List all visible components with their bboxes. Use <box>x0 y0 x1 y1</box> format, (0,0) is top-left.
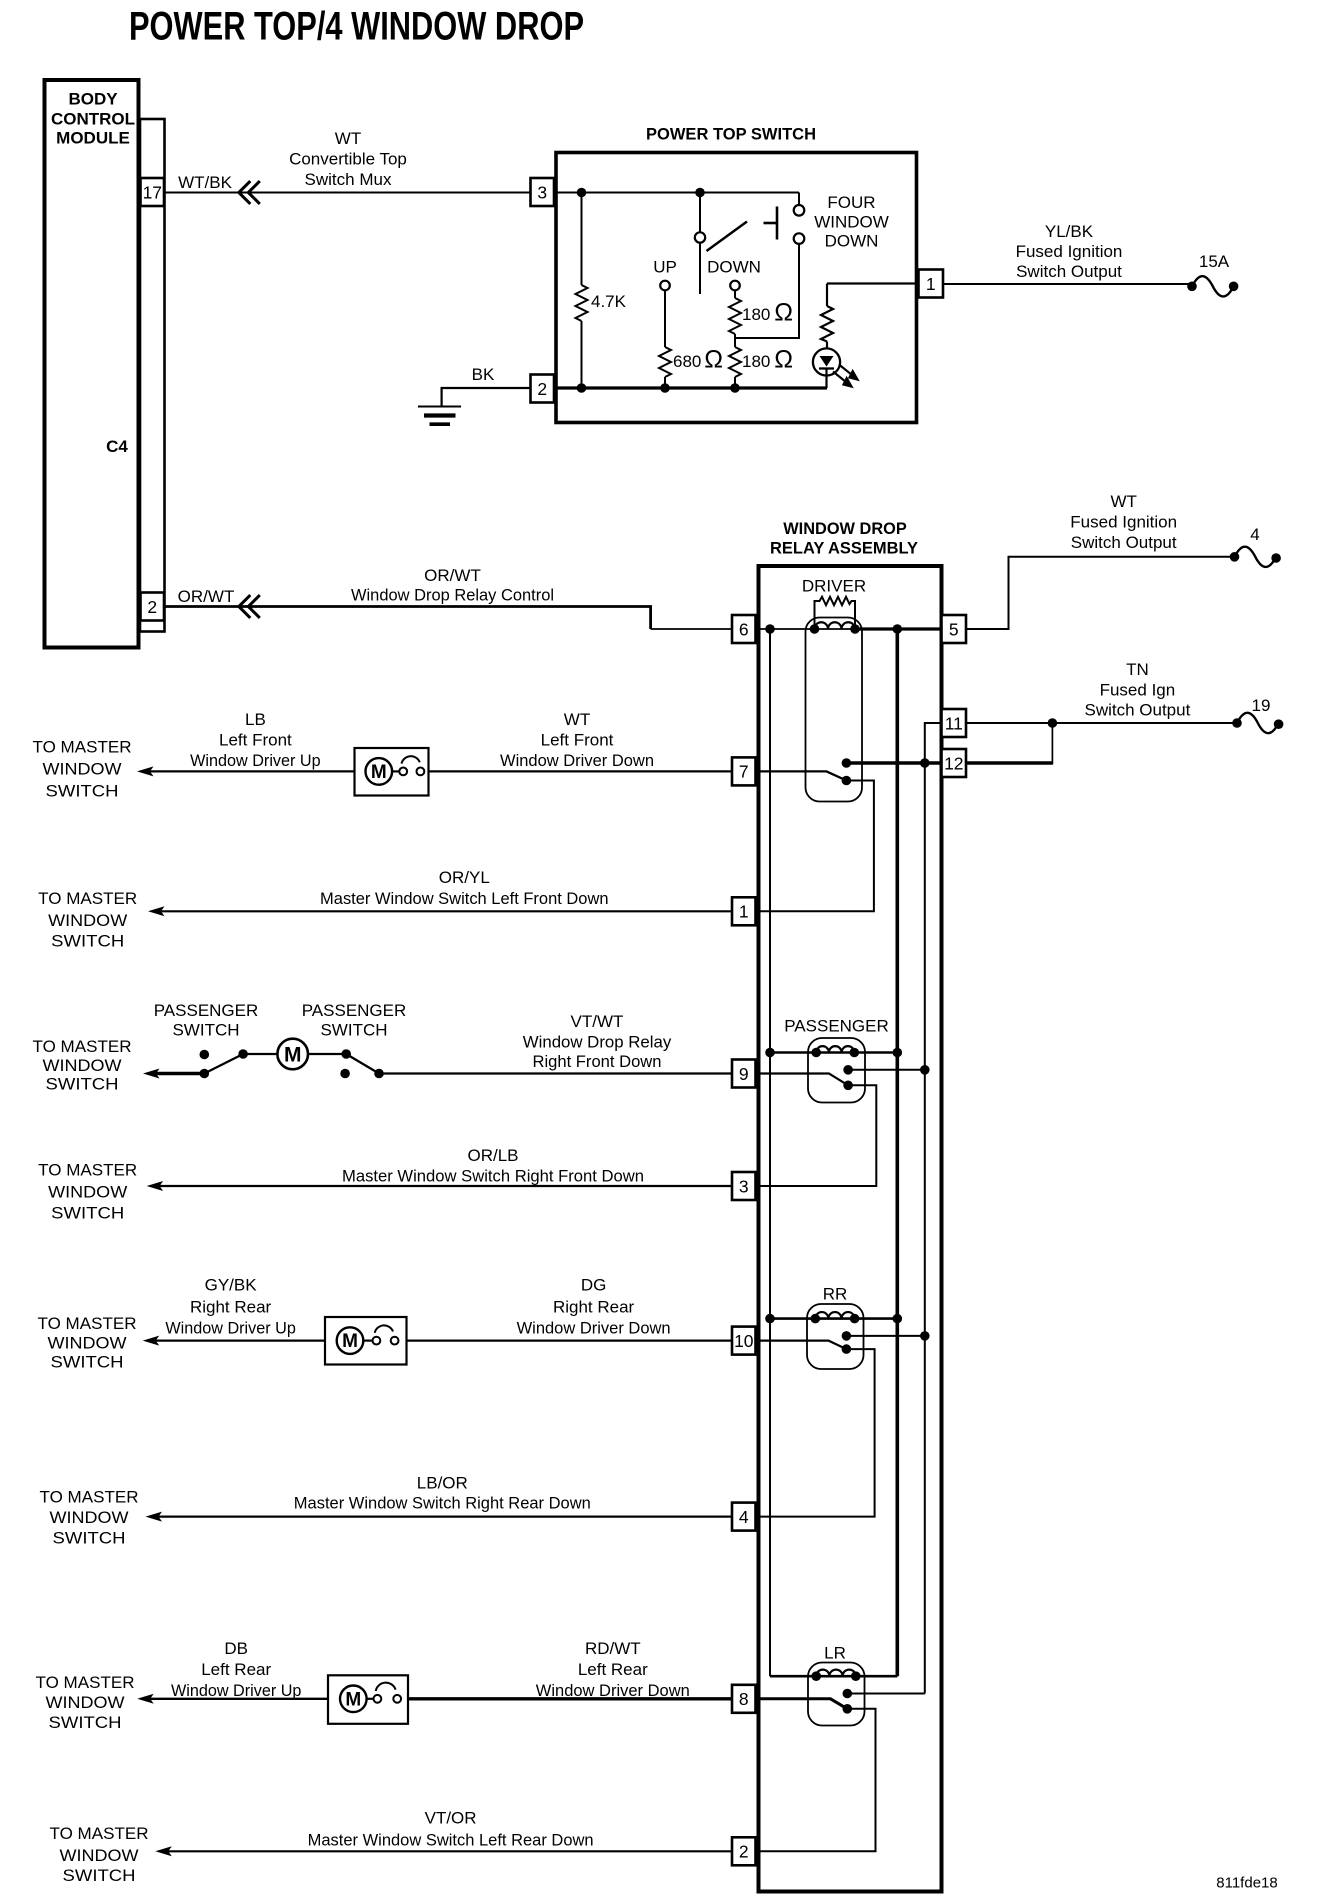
wire label OR/YL Master Window Switch Left Front Down <box>320 868 609 908</box>
relay pin 5 <box>942 615 967 643</box>
svg-text:WINDOW: WINDOW <box>46 1693 125 1712</box>
svg-text:DRIVER: DRIVER <box>802 577 866 596</box>
wire: switch pin 3 top rail <box>554 192 799 194</box>
svg-text:FOUR: FOUR <box>827 193 875 212</box>
arrow to master window switch (row 10) <box>143 1336 160 1346</box>
svg-text:Ω: Ω <box>774 346 793 374</box>
svg-text:UP: UP <box>653 258 677 277</box>
svg-text:Right Front Down: Right Front Down <box>533 1052 662 1071</box>
svg-text:POWER TOP/4 WINDOW DROP: POWER TOP/4 WINDOW DROP <box>129 5 584 49</box>
svg-text:4: 4 <box>1250 525 1259 544</box>
svg-text:SWITCH: SWITCH <box>51 1353 124 1372</box>
svg-text:RELAY ASSEMBLY: RELAY ASSEMBLY <box>770 539 919 558</box>
node: RR NO contact <box>842 1331 852 1341</box>
relay pin 7 <box>732 757 756 785</box>
svg-text:M: M <box>342 1331 358 1352</box>
label FOUR WINDOW DOWN <box>814 193 889 251</box>
relay DRIVER body (stadium) <box>806 618 863 802</box>
fuse 4 <box>1230 525 1281 567</box>
svg-text:WINDOW: WINDOW <box>48 1183 127 1202</box>
node: passenger coil row / thick bus <box>893 1048 903 1058</box>
resistor 180 ohm (upper) <box>729 290 741 347</box>
wire label DB Left Rear Window Driver Up <box>171 1639 302 1700</box>
wire: internal bus from driver coil to LR coil (thick) <box>895 629 899 1676</box>
wire BK: ground to switch pin 2 <box>442 388 531 407</box>
wire label WT Left Front Window Driver Down <box>500 710 654 770</box>
svg-text:Master Window Switch Left Fron: Master Window Switch Left Front Down <box>320 889 609 908</box>
svg-text:SWITCH: SWITCH <box>53 1529 126 1548</box>
wire: passenger lower contact to pin 3 <box>756 1085 877 1186</box>
svg-text:LB/OR: LB/OR <box>417 1474 468 1493</box>
svg-text:Left Rear: Left Rear <box>201 1660 271 1679</box>
arrow to master window switch (row 3) <box>147 1181 164 1191</box>
wire: LED branch to pin 1 <box>827 282 919 284</box>
svg-text:Master Window Switch Right Fro: Master Window Switch Right Front Down <box>342 1167 644 1186</box>
svg-text:2: 2 <box>537 379 547 399</box>
svg-text:WINDOW: WINDOW <box>50 1508 129 1527</box>
wire: pin 7 to driver blade <box>756 771 847 780</box>
svg-text:5: 5 <box>949 619 959 639</box>
svg-text:Right Rear: Right Rear <box>553 1298 635 1317</box>
node: blade to motor wire <box>238 1049 248 1059</box>
node: passenger coil row / left bus <box>765 1048 775 1058</box>
connector C4 strip <box>140 119 165 632</box>
wire: arrow to motor RR <box>155 1339 325 1341</box>
node: pin 12 wire / pin 11 bus <box>920 758 930 768</box>
svg-text:DOWN: DOWN <box>825 232 879 251</box>
motor M left front window <box>355 748 429 796</box>
node: passenger NO contact <box>843 1065 853 1075</box>
pushbutton FOUR WINDOW DOWN <box>794 205 805 216</box>
wire: pin 12 to TN junction (thick) <box>966 761 1052 764</box>
svg-text:RR: RR <box>823 1285 848 1304</box>
arrow to master window switch (row 2) <box>155 1846 172 1856</box>
arrow to master window switch (row 8) <box>137 1694 154 1704</box>
node: bottom rail / 180 <box>730 383 740 393</box>
node label TO MASTER WINDOW SWITCH (row 1) <box>38 889 137 951</box>
svg-text:1: 1 <box>739 902 749 922</box>
node label TO MASTER WINDOW SWITCH (row 4) <box>40 1487 139 1547</box>
node label TO MASTER WINDOW SWITCH (row 3) <box>38 1161 137 1223</box>
wire: passenger coil row <box>770 1051 897 1054</box>
svg-text:Fused Ignition: Fused Ignition <box>1070 513 1177 532</box>
svg-text:VT/OR: VT/OR <box>425 1808 477 1827</box>
relay LR coil <box>816 1670 856 1677</box>
wire OR/YL: relay pin 1 to master switch <box>160 910 732 912</box>
relay pin 4 <box>732 1503 756 1531</box>
svg-text:GY/BK: GY/BK <box>205 1276 258 1295</box>
node: RR coil row / left bus <box>765 1314 775 1324</box>
wire: RR NO contact to pin 11 bus <box>846 1335 924 1337</box>
svg-text:19: 19 <box>1252 696 1271 715</box>
wire: internal bus from pin 11 down to LR contact (thin) <box>925 723 942 1694</box>
wire: LR lower contact to pin 2 <box>756 1709 876 1852</box>
fuse 15A <box>1187 252 1238 296</box>
svg-text:11: 11 <box>945 713 963 733</box>
svg-text:SWITCH: SWITCH <box>172 1021 239 1040</box>
switch label PASSENGER SWITCH (right) <box>302 1001 407 1040</box>
svg-text:YL/BK: YL/BK <box>1045 222 1094 241</box>
in-line connector chevrons on WT/BK wire <box>239 181 260 204</box>
svg-text:OR/YL: OR/YL <box>439 868 490 887</box>
node: bottom rail / 4.7K <box>577 383 587 393</box>
svg-text:WINDOW: WINDOW <box>814 213 889 232</box>
svg-text:MODULE: MODULE <box>56 129 130 148</box>
in-line connector chevrons on OR/WT wire <box>239 595 260 618</box>
svg-text:Window Driver Down: Window Driver Down <box>517 1319 671 1338</box>
svg-text:8: 8 <box>739 1689 749 1709</box>
wire: LR NO contact to pin 11 bus <box>847 1693 925 1695</box>
node label TO MASTER WINDOW SWITCH (row 7) <box>33 738 132 801</box>
svg-text:6: 6 <box>739 619 749 639</box>
node label TO MASTER WINDOW SWITCH (row 2) <box>50 1824 149 1885</box>
svg-text:WINDOW: WINDOW <box>43 760 122 779</box>
svg-text:Switch Mux: Switch Mux <box>305 170 392 189</box>
svg-text:DB: DB <box>224 1639 248 1658</box>
svg-text:Master Window Switch Right Rea: Master Window Switch Right Rear Down <box>294 1494 591 1513</box>
passenger switch right: open contact <box>340 1069 350 1079</box>
passenger switch left: common node <box>200 1069 210 1079</box>
wire label LB/OR Master Window Switch Right Rear Down <box>294 1474 591 1513</box>
ground symbol <box>418 407 461 425</box>
relay pin 12 <box>942 749 967 777</box>
svg-text:Switch Output: Switch Output <box>1016 262 1122 281</box>
switch pole (mux wiper) <box>699 193 701 233</box>
node: LR coil right terminal <box>851 1671 861 1681</box>
svg-text:Convertible Top: Convertible Top <box>289 150 407 169</box>
svg-text:4: 4 <box>739 1507 749 1527</box>
node: coil row / thick bus <box>893 624 903 634</box>
node: pin 11 wire / pin 12 riser <box>1048 718 1058 728</box>
pin 1 (switch) <box>919 270 944 298</box>
wire TN: pin 11 to fuse 19 <box>966 722 1237 724</box>
svg-text:SWITCH: SWITCH <box>46 1075 119 1094</box>
node: passenger coil right terminal <box>850 1048 860 1058</box>
svg-text:WT: WT <box>335 129 361 148</box>
wire VT/OR: relay pin 2 to master switch <box>167 1850 732 1852</box>
LED indicator <box>813 348 840 375</box>
svg-text:LB: LB <box>245 710 266 729</box>
node label TO MASTER WINDOW SWITCH (row 8) <box>36 1673 135 1732</box>
wire: internal bus from pin 6 junction down to LR coil (thin) <box>769 629 771 1676</box>
svg-text:TO MASTER: TO MASTER <box>50 1824 149 1843</box>
svg-text:WINDOW: WINDOW <box>48 911 127 930</box>
svg-text:Switch Output: Switch Output <box>1084 701 1190 720</box>
svg-text:LR: LR <box>824 1644 846 1663</box>
wire: RR lower contact to pin 4 <box>756 1349 875 1517</box>
svg-text:TO MASTER: TO MASTER <box>33 1037 132 1056</box>
switch blade (wiper arm) <box>707 222 748 252</box>
wire label RD/WT Left Rear Window Driver Down <box>536 1639 690 1700</box>
wire: passenger NO contact to pin 11 bus <box>848 1069 925 1071</box>
wire: pin 8 to LR blade (thick) <box>756 1699 848 1709</box>
node: RR coil left terminal <box>811 1314 821 1324</box>
window drop relay assembly title <box>770 519 919 558</box>
wire: pin 6 to pin 5 coil row <box>756 628 856 630</box>
arrow to master window switch (row 1) <box>148 906 165 916</box>
svg-text:Left Rear: Left Rear <box>578 1660 648 1679</box>
svg-text:Ω: Ω <box>704 346 723 374</box>
wire RD/WT: motor LR to relay pin 8 (thick) <box>408 1697 732 1700</box>
svg-text:WT/BK: WT/BK <box>178 173 232 192</box>
pin 2 (switch) <box>531 375 555 403</box>
relay pin 1 <box>732 897 756 925</box>
relay RR body (stadium) <box>807 1304 864 1369</box>
relay DRIVER coil <box>815 622 856 629</box>
svg-text:WINDOW: WINDOW <box>48 1333 127 1352</box>
svg-text:Window Drop Relay: Window Drop Relay <box>523 1033 672 1052</box>
node: LR NO contact <box>843 1689 853 1699</box>
wire OR/LB: relay pin 3 to master switch <box>159 1185 732 1187</box>
svg-text:2: 2 <box>739 1842 749 1862</box>
resistor 680 ohm <box>659 290 671 388</box>
node: LR NC contact <box>843 1704 853 1714</box>
arrow to master window switch (row 7) <box>137 766 154 776</box>
wire DG: motor RR to relay pin 10 <box>407 1339 733 1341</box>
relay RR coil <box>815 1312 854 1319</box>
net label TN Fused Ign Switch Output <box>1084 660 1190 720</box>
node: junction on pin 11 bus (RR) <box>920 1331 930 1341</box>
svg-text:680: 680 <box>673 352 701 371</box>
svg-text:Fused Ign: Fused Ign <box>1100 681 1176 700</box>
node: coil row / left bus <box>765 624 775 634</box>
svg-text:2: 2 <box>147 597 157 617</box>
motor M right rear window <box>325 1317 407 1365</box>
svg-text:10: 10 <box>734 1331 754 1351</box>
svg-text:PASSENGER: PASSENGER <box>302 1001 407 1020</box>
relay pin 3 <box>732 1172 756 1200</box>
passenger switch left: open contact <box>200 1050 210 1060</box>
wire label OR/LB Master Window Switch Right Front Down <box>342 1146 644 1186</box>
node: driver NO contact <box>842 758 852 768</box>
svg-text:PASSENGER: PASSENGER <box>154 1001 259 1020</box>
svg-text:VT/WT: VT/WT <box>571 1012 624 1031</box>
resistor 180 ohm (lower) <box>729 347 741 388</box>
relay PASSENGER coil <box>816 1046 854 1052</box>
passenger switch left: blade <box>204 1054 243 1074</box>
relay pin 2 <box>732 1837 756 1865</box>
arrow to master window switch (row 9) <box>143 1069 160 1079</box>
wire: arrow to motor LF <box>149 770 355 772</box>
node: bottom rail / 680 <box>660 383 670 393</box>
relay PASSENGER body (stadium) <box>808 1038 865 1103</box>
wire label GY/BK Right Rear Window Driver Up <box>165 1276 296 1338</box>
svg-text:OR/WT: OR/WT <box>178 587 235 606</box>
relay pin 11 <box>942 709 967 737</box>
svg-text:Window Drop Relay Control: Window Drop Relay Control <box>351 586 554 605</box>
switch label PASSENGER SWITCH (left) <box>154 1001 259 1040</box>
svg-text:17: 17 <box>143 182 162 202</box>
node label TO MASTER WINDOW SWITCH (row 9) <box>33 1037 132 1094</box>
svg-text:Master Window Switch Left Rear: Master Window Switch Left Rear Down <box>308 1830 594 1849</box>
node: RR coil row / thick bus <box>893 1314 903 1324</box>
body control module label <box>51 90 135 148</box>
svg-text:Left Front: Left Front <box>541 731 614 750</box>
svg-text:180: 180 <box>742 305 770 324</box>
node: RR NC contact <box>842 1344 852 1354</box>
svg-text:WINDOW DROP: WINDOW DROP <box>783 519 907 538</box>
svg-text:TN: TN <box>1126 660 1149 679</box>
svg-text:CONTROL: CONTROL <box>51 110 135 129</box>
node: RR coil right terminal <box>850 1314 860 1324</box>
svg-text:BK: BK <box>472 365 495 384</box>
svg-text:TO MASTER: TO MASTER <box>40 1487 139 1506</box>
node: passenger coil left terminal <box>811 1048 821 1058</box>
motor M left rear window <box>328 1675 408 1724</box>
svg-text:WINDOW: WINDOW <box>43 1056 122 1075</box>
node: junction top rail / 4.7K <box>577 188 587 198</box>
pin 3 (switch) <box>531 178 555 206</box>
wire: corner down to pushbutton top <box>798 193 800 206</box>
net label YL/BK Fused Ignition Switch Output <box>1016 222 1123 281</box>
svg-text:15A: 15A <box>1199 252 1230 271</box>
resistor (LED series) <box>821 284 833 357</box>
svg-text:SWITCH: SWITCH <box>51 932 124 951</box>
wire OR/WT: BCM pin 2 to relay pin 6 <box>164 607 651 630</box>
node: passenger NC contact <box>843 1081 853 1091</box>
net label WT Convertible Top Switch Mux <box>289 129 407 189</box>
svg-text:Ω: Ω <box>774 299 793 327</box>
svg-text:4.7K: 4.7K <box>591 292 627 311</box>
svg-text:M: M <box>345 1689 361 1710</box>
resistor 4.7K <box>576 193 588 389</box>
svg-text:3: 3 <box>537 182 547 202</box>
passenger switch right: common node <box>341 1049 351 1059</box>
svg-text:PASSENGER: PASSENGER <box>784 1017 889 1036</box>
svg-text:9: 9 <box>739 1064 749 1084</box>
svg-text:TO MASTER: TO MASTER <box>33 738 132 757</box>
relay DRIVER coil resistor bracket <box>815 597 856 629</box>
svg-text:Fused Ignition: Fused Ignition <box>1016 242 1123 261</box>
fuse 19 <box>1232 696 1283 733</box>
svg-text:DG: DG <box>581 1276 607 1295</box>
passenger switch right: blade <box>346 1054 379 1074</box>
pin 17 (BCM) <box>141 178 165 206</box>
net label OR/WT Window Drop Relay Control <box>351 566 554 605</box>
svg-text:WINDOW: WINDOW <box>60 1846 139 1865</box>
wire: blade node to motor <box>243 1053 277 1055</box>
svg-text:RD/WT: RD/WT <box>585 1639 641 1658</box>
svg-text:TO MASTER: TO MASTER <box>38 1161 137 1180</box>
node: junction on pin 11 bus <box>920 1065 930 1075</box>
wire VT/WT: passenger switch to relay pin 9 <box>379 1072 732 1074</box>
svg-text:TO MASTER: TO MASTER <box>38 889 137 908</box>
wire: bottom rail (bold) pin 2 to LED <box>554 386 827 389</box>
svg-text:Right Rear: Right Rear <box>190 1298 272 1317</box>
wire LB/OR: relay pin 4 to master switch <box>158 1515 733 1517</box>
svg-text:Window Driver Down: Window Driver Down <box>536 1681 690 1700</box>
node: driver NC contact <box>842 776 852 786</box>
svg-text:Switch Output: Switch Output <box>1071 533 1177 552</box>
wire YL/BK: switch pin 1 to fuse <box>943 283 1192 285</box>
wire: junction of 180s to pushbutton bottom <box>735 244 799 338</box>
wire WT: motor LF to relay pin 7 <box>429 770 733 772</box>
relay pin 8 <box>732 1685 756 1713</box>
svg-text:Window Driver Up: Window Driver Up <box>165 1319 296 1338</box>
svg-text:180: 180 <box>742 352 770 371</box>
svg-text:811fde18: 811fde18 <box>1216 1875 1277 1892</box>
power top switch box <box>556 153 917 423</box>
svg-text:Window Driver Up: Window Driver Up <box>171 1681 302 1700</box>
body control module U-BCM box <box>45 80 139 648</box>
svg-text:Window Driver Up: Window Driver Up <box>190 751 321 770</box>
svg-text:SWITCH: SWITCH <box>320 1021 387 1040</box>
node: blade to pin 9 wire <box>374 1069 384 1079</box>
relay pin 6 <box>732 615 756 643</box>
svg-text:C4: C4 <box>106 437 128 456</box>
relay LR body (stadium) <box>808 1663 865 1726</box>
wire: LR coil row <box>770 1675 897 1678</box>
node: coil right terminal <box>850 624 860 634</box>
svg-text:SWITCH: SWITCH <box>49 1713 122 1732</box>
window drop relay assembly box <box>759 566 942 1892</box>
wire WT: pin 5 to fuse 4 <box>966 557 1235 629</box>
node: coil left terminal <box>810 624 820 634</box>
svg-text:WT: WT <box>564 710 590 729</box>
wire label DG Right Rear Window Driver Down <box>517 1276 671 1338</box>
motor M passenger window <box>277 1039 308 1070</box>
wire: driver lower contact to pin 1 <box>756 781 874 912</box>
node: LR coil left terminal <box>811 1671 821 1681</box>
wire WT/BK: BCM pin 17 to switch pin 3 <box>164 192 531 194</box>
svg-text:SWITCH: SWITCH <box>46 782 119 801</box>
wire label VT/OR Master Window Switch Left Rear Down <box>308 1808 594 1849</box>
wire: arrow to motor LR <box>149 1698 328 1700</box>
wire: motor to right switch <box>308 1053 346 1055</box>
svg-text:TO MASTER: TO MASTER <box>36 1673 135 1692</box>
svg-text:Left Front: Left Front <box>219 731 292 750</box>
LED arrows <box>833 365 858 387</box>
wire label LB Left Front Window Driver Up <box>190 710 321 770</box>
wire: arrow to passenger switch (thick) <box>155 1072 204 1075</box>
pin 2 (BCM) <box>141 593 165 621</box>
svg-text:POWER TOP SWITCH: POWER TOP SWITCH <box>646 125 816 144</box>
svg-text:Window Driver Down: Window Driver Down <box>500 751 654 770</box>
svg-text:M: M <box>371 762 387 783</box>
svg-text:7: 7 <box>739 762 749 782</box>
relay pin 9 <box>732 1060 756 1088</box>
svg-text:OR/WT: OR/WT <box>424 566 481 585</box>
net label WT Fused Ignition Switch Output <box>1070 492 1177 552</box>
arrow to master window switch (row 4) <box>146 1512 163 1522</box>
wire label VT/WT Window Drop Relay Right Front Down <box>523 1012 672 1071</box>
svg-text:TO MASTER: TO MASTER <box>38 1314 137 1333</box>
svg-text:SWITCH: SWITCH <box>63 1866 136 1885</box>
svg-text:SWITCH: SWITCH <box>51 1204 124 1223</box>
svg-text:3: 3 <box>739 1176 749 1196</box>
svg-text:DOWN: DOWN <box>707 258 761 277</box>
wire: RR coil row <box>770 1317 897 1320</box>
node: junction top rail / switch pole <box>695 188 705 198</box>
svg-text:1: 1 <box>926 274 936 294</box>
wire: pin 10 to RR blade <box>756 1341 847 1350</box>
wire: driver NO contact to pin 12 (thick) <box>846 761 941 765</box>
svg-text:BODY: BODY <box>68 90 118 109</box>
svg-text:12: 12 <box>944 753 963 773</box>
node label TO MASTER WINDOW SWITCH (row 10) <box>38 1314 137 1372</box>
svg-text:WT: WT <box>1110 492 1136 511</box>
svg-text:M: M <box>284 1044 302 1067</box>
svg-text:OR/LB: OR/LB <box>467 1146 518 1165</box>
wire: pin 9 to passenger blade <box>756 1074 849 1086</box>
relay pin 10 <box>732 1327 756 1355</box>
